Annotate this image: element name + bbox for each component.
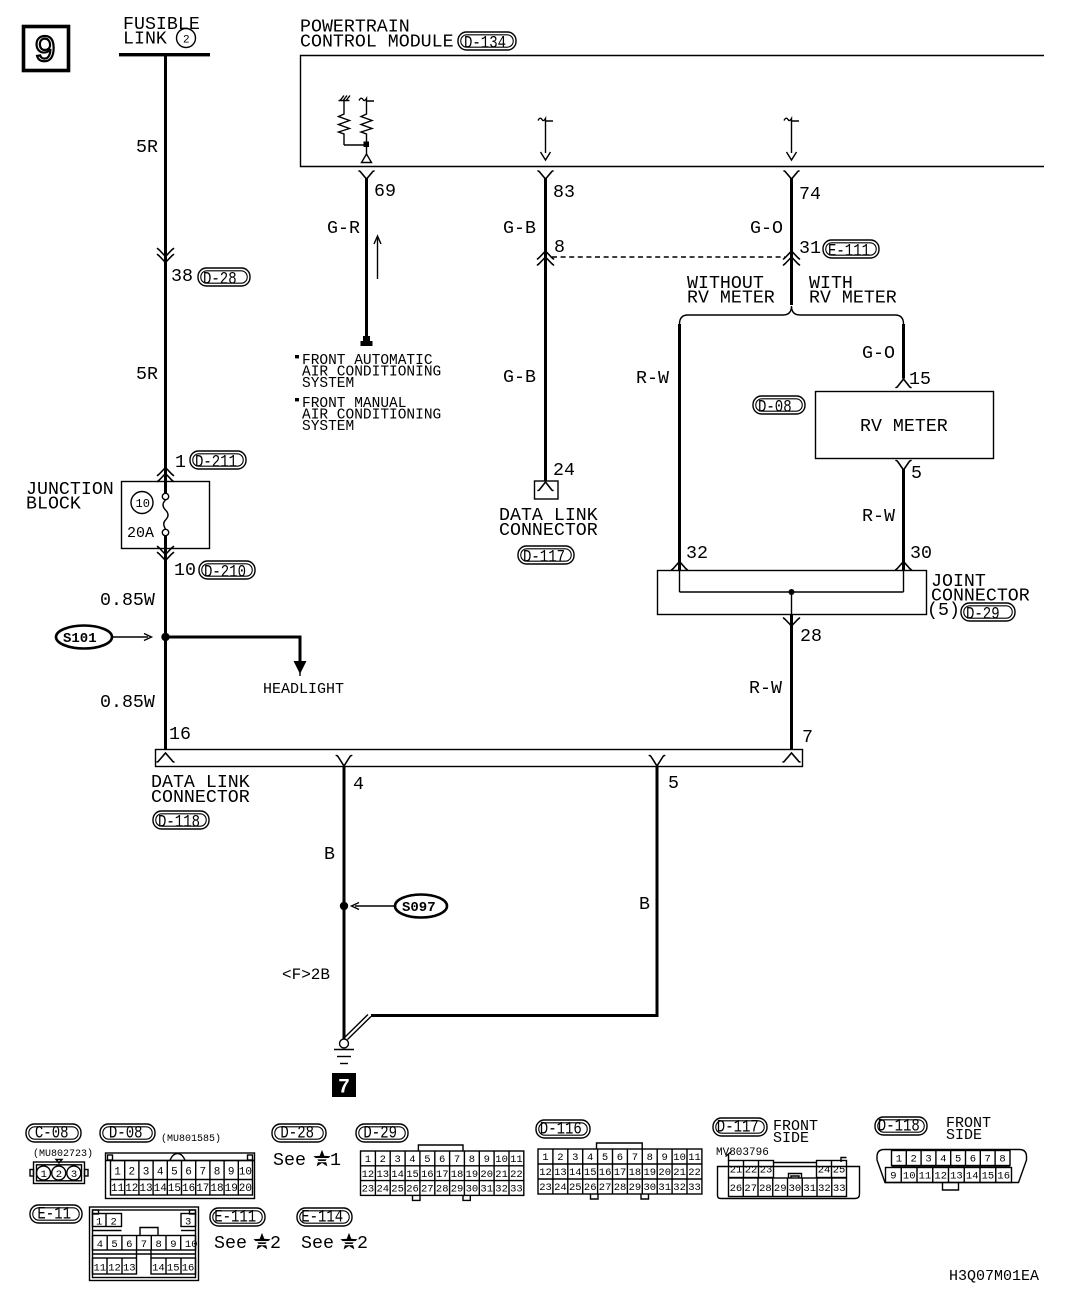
svg-text:D-29: D-29 [363, 1124, 397, 1144]
chevron at 28 (down) [784, 618, 800, 626]
svg-text:11: 11 [688, 1152, 701, 1164]
svg-text:R-W: R-W [636, 369, 669, 389]
svg-text:25: 25 [391, 1184, 404, 1196]
svg-text:D-28: D-28 [280, 1124, 314, 1144]
svg-text:28: 28 [614, 1182, 627, 1194]
PCM internal: chassis hatch for left resistor [339, 96, 351, 101]
svg-text:D-211: D-211 [195, 453, 237, 473]
svg-text:19: 19 [644, 1167, 657, 1179]
svg-text:15: 15 [982, 1171, 995, 1183]
svg-text:8: 8 [214, 1167, 221, 1179]
svg-text:19: 19 [225, 1183, 238, 1195]
svg-text:28: 28 [759, 1183, 772, 1195]
svg-text:HEADLIGHT: HEADLIGHT [263, 681, 344, 698]
svg-text:29: 29 [774, 1183, 787, 1195]
PCM internal pin symbol at 83 [538, 118, 553, 160]
wire 0.85W from junction block to D-118 [164, 549, 167, 750]
svg-text:16: 16 [997, 1171, 1010, 1183]
svg-text:11: 11 [919, 1171, 932, 1183]
svg-text:1: 1 [330, 1151, 341, 1171]
svg-text:D-117: D-117 [523, 548, 565, 568]
connector E-11 label [30, 1205, 82, 1225]
svg-text:15: 15 [168, 1183, 181, 1195]
fuse symbol [162, 481, 168, 549]
svg-text:2: 2 [380, 1154, 386, 1166]
svg-text:H3Q07M01EA: H3Q07M01EA [949, 1268, 1039, 1285]
svg-text:7: 7 [802, 728, 813, 748]
splice S097 [352, 895, 448, 918]
svg-text:11: 11 [510, 1154, 523, 1166]
svg-text:32: 32 [686, 544, 708, 564]
page number 9 box [24, 27, 69, 74]
svg-text:0.85W: 0.85W [100, 591, 155, 611]
connector C-08 drawing [30, 1160, 88, 1184]
svg-text:31: 31 [658, 1182, 671, 1194]
terminal 4 fork [336, 756, 351, 767]
svg-text:16: 16 [182, 1262, 195, 1274]
svg-text:13: 13 [139, 1183, 152, 1195]
svg-text:22: 22 [745, 1165, 758, 1177]
svg-text:G-O: G-O [862, 344, 895, 364]
svg-text:20: 20 [480, 1169, 493, 1181]
svg-text:8: 8 [999, 1154, 1005, 1166]
chevron 38 (double, down) [158, 249, 174, 263]
svg-text:21: 21 [673, 1167, 686, 1179]
fork at pin 69 below PCM [359, 171, 374, 179]
svg-text:(MU802723): (MU802723) [33, 1148, 93, 1160]
svg-text:16: 16 [599, 1167, 612, 1179]
svg-text:22: 22 [688, 1167, 701, 1179]
wire 5R from fusible link to junction block [164, 56, 167, 481]
fork at pin 83 below PCM [538, 171, 553, 179]
svg-text:30: 30 [466, 1184, 479, 1196]
chevron at 30 (double, up) [896, 562, 912, 571]
connector D-08 drawing [106, 1153, 255, 1199]
svg-text:29: 29 [451, 1184, 464, 1196]
splice S097 junction dot [340, 902, 348, 910]
svg-text:0.85W: 0.85W [100, 693, 155, 713]
svg-text:17: 17 [436, 1169, 449, 1181]
data link connector D-117 pin box [535, 481, 559, 499]
svg-text:22: 22 [510, 1169, 523, 1181]
wire 83 G-B [544, 179, 547, 482]
wire B from pin 5 [371, 766, 657, 1016]
svg-text:7: 7 [632, 1152, 638, 1164]
svg-text:23: 23 [539, 1182, 552, 1194]
svg-text:D-08: D-08 [109, 1124, 143, 1144]
circled 10 [131, 492, 153, 514]
svg-text:(5): (5) [927, 601, 960, 621]
svg-text:1: 1 [896, 1154, 902, 1166]
svg-text:5: 5 [111, 1239, 117, 1251]
connector grid D-29 [418, 1145, 463, 1151]
svg-text:G-B: G-B [503, 368, 536, 388]
PCM internal: wire join to junction [344, 144, 367, 146]
svg-text:B: B [639, 895, 650, 915]
svg-text:14: 14 [966, 1171, 979, 1183]
svg-text:21: 21 [730, 1165, 743, 1177]
svg-text:2: 2 [357, 1234, 368, 1254]
svg-text:3: 3 [925, 1154, 931, 1166]
svg-text:5R: 5R [136, 138, 158, 158]
svg-text:27: 27 [744, 1183, 757, 1195]
svg-text:15: 15 [584, 1167, 597, 1179]
svg-text:R-W: R-W [862, 507, 895, 527]
ground symbol [334, 1039, 354, 1064]
svg-text:E-111: E-111 [214, 1208, 256, 1228]
svg-text:4: 4 [157, 1167, 164, 1179]
connector D-28 label [272, 1124, 326, 1144]
chevron at 32 (double, up) [672, 562, 688, 571]
connector C-08 label [26, 1124, 81, 1144]
svg-text:31: 31 [480, 1184, 493, 1196]
svg-text:1: 1 [114, 1167, 121, 1179]
svg-text:6: 6 [439, 1154, 445, 1166]
svg-text:12: 12 [934, 1171, 947, 1183]
svg-text:10: 10 [185, 1239, 198, 1251]
svg-text:D-117: D-117 [717, 1118, 759, 1138]
wire G-O right branch (with RV meter) [902, 324, 905, 379]
chevron at 8 (double, up) [538, 251, 554, 265]
chevron at 31 (double, up) [784, 251, 800, 265]
note: front automatic air conditioning [295, 353, 441, 392]
svg-text:E-111: E-111 [828, 242, 870, 262]
svg-text:4: 4 [587, 1152, 593, 1164]
dashed takeout line 8 to 31 [552, 256, 785, 258]
connector grid D-116 [597, 1143, 643, 1149]
svg-text:D-210: D-210 [204, 563, 246, 583]
svg-text:10: 10 [136, 497, 150, 511]
svg-text:27: 27 [599, 1182, 612, 1194]
svg-text:2: 2 [129, 1167, 136, 1179]
wire R-W from RV meter [902, 470, 905, 571]
svg-text:12: 12 [539, 1167, 552, 1179]
junction block box [122, 482, 210, 549]
wire 28 leaving joint connector [791, 592, 793, 615]
svg-text:1: 1 [542, 1152, 548, 1164]
svg-text:4: 4 [353, 775, 364, 795]
svg-text:24: 24 [377, 1184, 390, 1196]
svg-text:29: 29 [629, 1182, 642, 1194]
PCM internal: right resistor hook [359, 98, 374, 101]
svg-text:12: 12 [362, 1169, 375, 1181]
fork at RV meter pin 15 [896, 379, 911, 388]
svg-text:38: 38 [171, 267, 193, 287]
svg-text:21: 21 [495, 1169, 508, 1181]
svg-text:10: 10 [174, 561, 196, 581]
svg-text:14: 14 [569, 1167, 582, 1179]
svg-text:12: 12 [108, 1262, 121, 1274]
svg-text:C-08: C-08 [35, 1124, 69, 1144]
svg-text:27: 27 [421, 1184, 434, 1196]
wire B from pin 4 [343, 766, 346, 1039]
svg-text:D-118: D-118 [878, 1117, 920, 1137]
svg-text:1: 1 [175, 453, 186, 473]
svg-text:E-11: E-11 [37, 1205, 71, 1225]
svg-text:4: 4 [97, 1239, 103, 1251]
svg-text:24: 24 [553, 461, 575, 481]
svg-text:9: 9 [170, 1239, 176, 1251]
wire 69 G-R [365, 179, 368, 337]
PCM internal: left resistor R1 [339, 101, 350, 146]
svg-text:16: 16 [182, 1183, 195, 1195]
svg-text:8: 8 [647, 1152, 653, 1164]
svg-text:23: 23 [362, 1184, 375, 1196]
svg-text:8: 8 [469, 1154, 475, 1166]
svg-text:6: 6 [970, 1154, 976, 1166]
svg-text:14: 14 [391, 1169, 404, 1181]
chevron at 10 (double, down) [158, 547, 174, 561]
svg-text:D-28: D-28 [203, 270, 237, 290]
ground reference 7 (inverse box) [332, 1073, 356, 1100]
double diagonal join [345, 1015, 372, 1040]
svg-text:5: 5 [911, 464, 922, 484]
joint connector bus [680, 591, 904, 593]
svg-text:17: 17 [614, 1167, 627, 1179]
svg-text:33: 33 [688, 1182, 701, 1194]
connector E-114 label [297, 1208, 352, 1228]
connector D-117 drawing [718, 1152, 860, 1199]
svg-text:SYSTEM: SYSTEM [302, 376, 354, 392]
connector D-116 label [536, 1120, 590, 1140]
wire R-W left branch (without RV meter) [678, 324, 681, 570]
svg-text:28: 28 [800, 627, 822, 647]
svg-text:15: 15 [909, 370, 931, 390]
svg-text:5: 5 [668, 774, 679, 794]
svg-text:10: 10 [495, 1154, 508, 1166]
svg-text:13: 13 [554, 1167, 567, 1179]
svg-text:14: 14 [154, 1183, 168, 1195]
label D-211 [190, 451, 246, 473]
svg-text:16: 16 [421, 1169, 434, 1181]
svg-text:D-134: D-134 [464, 34, 506, 54]
connector E-11 drawing [90, 1207, 199, 1281]
svg-text:18: 18 [629, 1167, 642, 1179]
label E-111 [823, 240, 879, 262]
svg-text:LINK: LINK [123, 30, 167, 50]
RV METER box [816, 392, 994, 459]
svg-text:20: 20 [658, 1167, 671, 1179]
PCM box (open right side) [301, 56, 1045, 167]
svg-text:3: 3 [143, 1167, 150, 1179]
connector D-117 label [713, 1118, 767, 1138]
connector D-29 label [356, 1124, 408, 1144]
svg-text:30: 30 [910, 544, 932, 564]
connector D-118 label [875, 1117, 927, 1137]
svg-text:E-114: E-114 [301, 1208, 343, 1228]
junction dot S101 [161, 633, 169, 641]
svg-text:5: 5 [955, 1154, 961, 1166]
svg-text:2: 2 [911, 1154, 917, 1166]
svg-text:G-O: G-O [750, 219, 783, 239]
svg-text:26: 26 [406, 1184, 419, 1196]
svg-text:7: 7 [141, 1239, 147, 1251]
svg-text:6: 6 [617, 1152, 623, 1164]
label D-134 [458, 32, 516, 54]
svg-text:1: 1 [96, 1216, 102, 1228]
svg-text:8: 8 [156, 1239, 162, 1251]
svg-text:19: 19 [466, 1169, 479, 1181]
connector E-111 label [210, 1208, 265, 1228]
terminal 16 fork [157, 753, 174, 762]
note: front manual air conditioning [295, 396, 441, 435]
svg-text:32: 32 [495, 1184, 508, 1196]
svg-text:25: 25 [569, 1182, 582, 1194]
svg-text:SYSTEM: SYSTEM [302, 419, 354, 435]
svg-text:31: 31 [803, 1183, 816, 1195]
svg-text:9: 9 [228, 1167, 235, 1179]
label D-08 [753, 396, 805, 418]
svg-text:15: 15 [167, 1262, 180, 1274]
svg-text:33: 33 [833, 1183, 846, 1195]
svg-text:S097: S097 [402, 900, 436, 916]
bus junction dot [789, 589, 795, 595]
svg-text:SIDE: SIDE [773, 1130, 809, 1147]
svg-text:BLOCK: BLOCK [26, 495, 81, 515]
svg-text:S101: S101 [63, 631, 97, 647]
svg-text:See: See [273, 1151, 306, 1171]
svg-text:30: 30 [644, 1182, 657, 1194]
svg-text:RV METER: RV METER [687, 289, 775, 309]
connector D-118 drawing [877, 1150, 1027, 1191]
label D-210 [199, 561, 255, 583]
fork at pin 74 below PCM [784, 171, 799, 179]
svg-text:31: 31 [799, 239, 821, 259]
svg-text:5: 5 [424, 1154, 430, 1166]
joint connector box [658, 571, 927, 615]
svg-text:10: 10 [903, 1171, 916, 1183]
svg-text:14: 14 [152, 1262, 165, 1274]
svg-text:SIDE: SIDE [946, 1127, 982, 1144]
svg-text:2: 2 [111, 1216, 117, 1228]
svg-text:83: 83 [553, 183, 575, 203]
svg-text:7: 7 [985, 1154, 991, 1166]
svg-text:CONNECTOR: CONNECTOR [499, 521, 598, 541]
svg-text:9: 9 [662, 1152, 668, 1164]
svg-text:32: 32 [818, 1183, 831, 1195]
svg-text:4: 4 [940, 1154, 946, 1166]
svg-text:CONNECTOR: CONNECTOR [151, 788, 250, 808]
svg-text:MV803796: MV803796 [716, 1147, 769, 1159]
svg-text:2: 2 [270, 1234, 281, 1254]
svg-text:D-118: D-118 [158, 813, 200, 833]
svg-text:26: 26 [730, 1183, 743, 1195]
svg-text:6: 6 [126, 1239, 132, 1251]
svg-text:D-29: D-29 [966, 605, 1000, 625]
svg-text:32: 32 [673, 1182, 686, 1194]
data link connector D-118 strip [156, 750, 803, 767]
split brace [680, 306, 904, 324]
svg-text:18: 18 [210, 1183, 223, 1195]
svg-text:23: 23 [760, 1165, 773, 1177]
svg-text:7: 7 [200, 1167, 207, 1179]
svg-text:See: See [301, 1234, 334, 1254]
svg-text:12: 12 [125, 1183, 138, 1195]
wire 74 G-O [790, 179, 793, 306]
fork at RV meter pin 5 (bottom) [896, 461, 911, 471]
svg-text:(MU801585): (MU801585) [161, 1133, 221, 1145]
svg-text:33: 33 [510, 1184, 523, 1196]
svg-text:13: 13 [950, 1171, 963, 1183]
svg-text:D-116: D-116 [540, 1120, 582, 1140]
svg-text:3: 3 [71, 1169, 77, 1181]
svg-text:13: 13 [123, 1262, 136, 1274]
svg-text:2: 2 [183, 35, 190, 47]
svg-text:G-R: G-R [327, 219, 360, 239]
svg-text:B: B [324, 845, 335, 865]
branch wire to headlight [166, 637, 301, 663]
svg-text:24: 24 [818, 1165, 831, 1177]
svg-text:2: 2 [557, 1152, 563, 1164]
svg-text:18: 18 [451, 1169, 464, 1181]
svg-text:69: 69 [374, 182, 396, 202]
PCM internal: lead and output triangle pin 69 [366, 147, 368, 154]
svg-text:R-W: R-W [749, 679, 782, 699]
PCM internal: right resistor R2 [361, 101, 372, 142]
svg-text:7: 7 [454, 1154, 460, 1166]
svg-text:74: 74 [799, 185, 821, 205]
svg-text:G-B: G-B [503, 219, 536, 239]
svg-text:7: 7 [338, 1077, 350, 1100]
svg-text:10: 10 [239, 1167, 252, 1179]
svg-text:5: 5 [171, 1167, 178, 1179]
svg-text:30: 30 [789, 1183, 802, 1195]
svg-text:8: 8 [554, 238, 565, 258]
PCM internal pin symbol at 74 [784, 118, 799, 160]
svg-text:13: 13 [377, 1169, 390, 1181]
svg-text:24: 24 [554, 1182, 567, 1194]
svg-text:26: 26 [584, 1182, 597, 1194]
direction arrow (up) [374, 236, 381, 279]
svg-text:1: 1 [41, 1169, 47, 1181]
svg-text:1: 1 [365, 1154, 371, 1166]
terminal 5 fork [649, 756, 664, 767]
headlight arrowhead [294, 661, 307, 674]
svg-text:3: 3 [572, 1152, 578, 1164]
terminal 7 fork [783, 753, 800, 762]
svg-text:9: 9 [484, 1154, 490, 1166]
svg-text:CONTROL MODULE: CONTROL MODULE [300, 33, 454, 53]
svg-text:RV METER: RV METER [809, 289, 897, 309]
svg-text:10: 10 [673, 1152, 686, 1164]
powertrain control module label [300, 18, 454, 53]
svg-text:RV METER: RV METER [860, 417, 948, 437]
svg-text:11: 11 [111, 1183, 125, 1195]
svg-text:3: 3 [185, 1216, 191, 1228]
svg-text:11: 11 [94, 1262, 107, 1274]
connector D-08 label [100, 1124, 155, 1144]
svg-text:2: 2 [56, 1169, 62, 1181]
PCM internal: junction square [364, 142, 370, 148]
svg-text:25: 25 [833, 1165, 846, 1177]
svg-text:9: 9 [34, 31, 56, 73]
splice S101 [56, 626, 152, 649]
fusible link bar [119, 53, 210, 56]
svg-text:3: 3 [395, 1154, 401, 1166]
svg-text:9: 9 [890, 1171, 896, 1183]
svg-text:16: 16 [169, 725, 191, 745]
chevron at 1 (double, up) [158, 468, 174, 482]
svg-text:See: See [214, 1234, 247, 1254]
svg-text:6: 6 [185, 1167, 192, 1179]
svg-text:D-08: D-08 [758, 398, 792, 418]
svg-text:<F>2B: <F>2B [282, 966, 330, 984]
svg-text:5: 5 [602, 1152, 608, 1164]
svg-text:5R: 5R [136, 365, 158, 385]
svg-text:28: 28 [436, 1184, 449, 1196]
svg-text:17: 17 [196, 1183, 209, 1195]
fusible link label [123, 15, 200, 50]
